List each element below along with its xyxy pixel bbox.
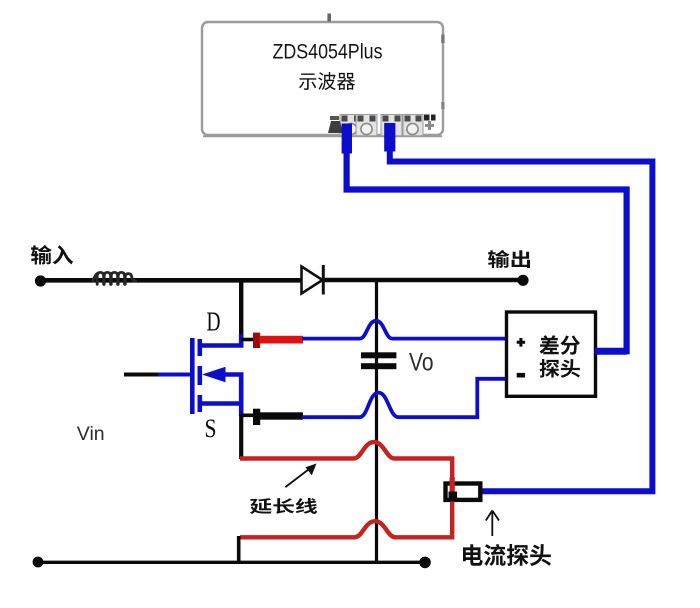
wire center node Vo vertical — [375, 281, 378, 562]
connector panel small aux connector — [424, 115, 436, 131]
wire source vertical black to extension — [239, 414, 243, 459]
wire black stub red bottom to ground — [237, 536, 241, 562]
gate lead blue part — [158, 373, 190, 377]
oscilloscope box U1 — [202, 22, 443, 135]
probe black tip — [253, 409, 260, 425]
svg-text:S: S — [205, 414, 217, 443]
channel stub bottom — [198, 395, 203, 412]
label 电流探头 — [463, 544, 551, 566]
wire MOSFET drain vertical (black) — [239, 280, 243, 341]
differential probe minus terminal — [517, 373, 525, 378]
transistor Q1 body arrow — [202, 367, 226, 383]
wire diode to output — [322, 278, 523, 282]
probe red body — [260, 336, 304, 344]
node input dot — [35, 275, 46, 286]
svg-text:Vin: Vin — [77, 423, 105, 445]
label 输出 — [488, 250, 530, 268]
differential probe box — [507, 312, 596, 396]
transistor Q1 MOSFET blue structure — [158, 334, 241, 416]
gate bar — [190, 338, 195, 414]
wire red extension top with hop — [240, 442, 452, 481]
wire black stub drain to red probe — [241, 338, 254, 342]
connector panel tile CH2 — [356, 115, 377, 137]
channel stub middle — [198, 366, 203, 385]
connector panel tile CH4 — [403, 115, 423, 137]
connector panel tile CH3 — [381, 115, 402, 137]
node ground right dot — [419, 557, 431, 569]
label 输入 — [31, 245, 73, 265]
transistor Q1 MOSFET gate lead black part — [124, 373, 159, 377]
cable CH3 to current probe — [390, 148, 653, 491]
cable CH1 to differential probe — [347, 150, 627, 351]
capacitor C1 plate bottom — [361, 363, 396, 369]
oscilloscope bottom edge — [203, 135, 442, 137]
wire red extension bottom with hop — [240, 502, 452, 538]
wire differential probe output thick — [595, 348, 627, 355]
capacitor C1 plate top — [361, 352, 396, 358]
arrow pointer to extension wire — [285, 466, 313, 488]
ground wire — [38, 561, 425, 564]
wire blue plus probe line with hop — [302, 321, 507, 339]
node ground left dot — [33, 557, 44, 568]
current probe body — [446, 484, 481, 500]
differential probe plus terminal — [517, 338, 525, 347]
BNC plug CH1 — [342, 124, 352, 154]
wire red through current probe upper — [450, 477, 455, 492]
diode cathode bar — [322, 265, 325, 295]
label 示波器 — [299, 72, 355, 90]
node output dot — [517, 275, 528, 286]
connector panel tile CH1 — [340, 115, 362, 137]
label 延长线 — [250, 498, 317, 514]
drain lead — [200, 334, 241, 346]
diode D1 — [302, 267, 323, 294]
channel stub top — [198, 339, 203, 356]
oscilloscope right edge mark — [441, 35, 444, 44]
inductor L1 — [93, 272, 136, 284]
wire blue minus probe line with hop — [302, 379, 507, 417]
label 差分 — [540, 335, 581, 355]
body lead to source — [224, 375, 241, 417]
svg-text:ZDS4054Plus: ZDS4054Plus — [273, 41, 383, 64]
wire input to diode — [40, 278, 302, 283]
connector panel dark icon left of CH1 — [328, 121, 343, 133]
svg-text:D: D — [207, 307, 221, 337]
source lead — [200, 401, 241, 406]
BNC plug CH3 — [384, 123, 395, 152]
svg-text:Vo: Vo — [409, 349, 434, 377]
current probe inner notch — [449, 492, 458, 500]
probe red tip — [253, 333, 260, 348]
oscilloscope top tick — [327, 14, 331, 22]
probe black body — [260, 412, 304, 419]
label 探头 — [540, 359, 581, 378]
wire black stub source to black probe — [241, 413, 254, 417]
arrow pointer current probe up — [486, 511, 499, 537]
